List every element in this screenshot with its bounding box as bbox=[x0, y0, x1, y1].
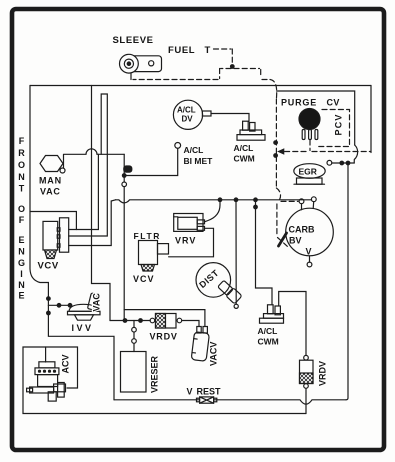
svg-text:BV: BV bbox=[289, 236, 302, 246]
valve VCV left bbox=[43, 218, 69, 259]
svg-text:CWM: CWM bbox=[258, 337, 279, 347]
svg-text:PCV: PCV bbox=[334, 113, 344, 135]
svg-text:VAC: VAC bbox=[92, 293, 102, 312]
svg-text:VRDV: VRDV bbox=[150, 332, 178, 342]
reservoir VRESER bbox=[121, 352, 147, 393]
svg-text:N: N bbox=[18, 280, 25, 290]
wire Va vertical bbox=[92, 86, 111, 321]
wire Vb to VCV port1 bbox=[69, 154, 99, 229]
purge valve PURGE CV bbox=[299, 109, 320, 140]
wire drop continues bbox=[123, 187, 125, 321]
junction dots on y200 bbox=[218, 198, 222, 202]
wire EGR right bbox=[332, 162, 354, 164]
wire riser to DIST bbox=[235, 200, 237, 304]
motor A/CL CWM 2 bbox=[260, 305, 284, 323]
svg-text:VACV: VACV bbox=[209, 342, 219, 366]
dashed hose fuel tank net bbox=[133, 49, 298, 247]
wire riser bridge to VCV port2 bbox=[69, 94, 108, 236]
big box left edge with elbow bbox=[30, 86, 48, 283]
label FRONT OF ENGINE bbox=[18, 136, 25, 301]
wire purge box S-bend to EGR wire bbox=[354, 145, 357, 163]
wire VRDV3 bottom bbox=[305, 388, 307, 413]
inner line y200 with dip hop bbox=[116, 200, 312, 203]
wire to IVV bbox=[48, 304, 69, 306]
svg-text:I: I bbox=[20, 269, 23, 279]
wire VCV port3 to top line bbox=[69, 200, 116, 246]
sleeve SLEEVE bbox=[119, 54, 161, 79]
wire BIMET down-left bbox=[124, 148, 178, 175]
wire sub line y309 to VACV bbox=[124, 310, 205, 327]
wire MAN VAC with hop bbox=[64, 149, 125, 168]
svg-text:T: T bbox=[19, 184, 25, 194]
big box top edge bbox=[30, 85, 371, 87]
svg-text:BI MET: BI MET bbox=[184, 156, 214, 166]
svg-text:A/CL: A/CL bbox=[177, 106, 196, 115]
motor A/CL CWM 1 bbox=[237, 121, 265, 140]
restrictor V REST bbox=[197, 397, 217, 403]
wire VRESER branch bbox=[133, 321, 135, 352]
wire VRV port2 to FLTR pipe bbox=[169, 228, 214, 256]
svg-text:VRESER: VRESER bbox=[150, 355, 160, 393]
dashed box PCV bbox=[283, 110, 371, 152]
filter VCV center bbox=[139, 241, 169, 272]
carb valve CARB BV bbox=[286, 197, 334, 267]
junction dashed fuel T bbox=[231, 65, 235, 69]
svg-text:VCV: VCV bbox=[38, 261, 59, 272]
svg-text:N: N bbox=[18, 247, 25, 257]
svg-text:N: N bbox=[18, 172, 25, 182]
svg-text:EGR: EGR bbox=[299, 167, 317, 177]
svg-text:E: E bbox=[18, 235, 24, 245]
svg-text:T: T bbox=[205, 45, 211, 56]
svg-text:VAC: VAC bbox=[40, 187, 61, 197]
pointer slash carb bbox=[279, 233, 287, 246]
box PURGE CV bbox=[277, 91, 355, 145]
svg-text:CV: CV bbox=[327, 98, 340, 108]
svg-text:MAN: MAN bbox=[39, 176, 62, 186]
valve VACV bbox=[191, 327, 209, 362]
svg-text:VRV: VRV bbox=[175, 236, 196, 246]
wire ACV loop bbox=[23, 347, 306, 414]
port A/CL BIMET bbox=[175, 143, 181, 149]
port circle bbox=[122, 182, 127, 187]
wire right vertical bbox=[346, 163, 348, 400]
svg-text:VRDV: VRDV bbox=[318, 361, 328, 386]
svg-text:PURGE: PURGE bbox=[281, 98, 317, 108]
valve EGR bbox=[294, 160, 332, 184]
svg-text:CWM: CWM bbox=[234, 154, 255, 164]
svg-text:FLTR: FLTR bbox=[134, 231, 161, 241]
svg-text:A/CL: A/CL bbox=[184, 145, 204, 155]
wire drop x124 blob junction bbox=[123, 154, 125, 182]
wire arc to VRV top port bbox=[205, 200, 221, 222]
valve ACV bbox=[27, 347, 66, 401]
svg-text:IVV: IVV bbox=[72, 323, 94, 333]
valve VRV bbox=[174, 214, 205, 232]
wire DV to CWM1 bbox=[211, 114, 249, 122]
svg-text:V: V bbox=[187, 387, 193, 397]
svg-text:F: F bbox=[19, 215, 25, 225]
svg-text:F: F bbox=[19, 136, 25, 146]
tube near VAC bbox=[87, 293, 97, 310]
svg-text:DV: DV bbox=[182, 115, 194, 124]
svg-text:O: O bbox=[18, 160, 25, 170]
valve A/CL DV bbox=[173, 100, 211, 129]
wire VRDV3 top bbox=[279, 292, 306, 356]
svg-text:A/CL: A/CL bbox=[258, 326, 278, 336]
wire riser to CWM2 bbox=[256, 200, 273, 305]
svg-text:V: V bbox=[306, 247, 312, 257]
distributor DIST bbox=[196, 263, 242, 309]
wire left column bbox=[48, 283, 114, 400]
svg-text:REST: REST bbox=[197, 387, 222, 397]
svg-text:VCV: VCV bbox=[133, 274, 155, 284]
hexagon MAN VAC bbox=[40, 156, 63, 172]
valve VRDV 2 bbox=[150, 314, 182, 329]
big box right edge bbox=[370, 86, 372, 153]
wire W1 bbox=[110, 321, 199, 327]
svg-text:O: O bbox=[18, 204, 25, 214]
valve IVV bbox=[68, 304, 101, 320]
svg-text:ACV: ACV bbox=[61, 354, 71, 373]
svg-text:G: G bbox=[18, 258, 25, 268]
svg-text:FUEL: FUEL bbox=[168, 45, 195, 56]
wire left edge to VCV top bbox=[30, 212, 76, 230]
svg-text:A/CL: A/CL bbox=[234, 143, 254, 153]
arrow purge return bbox=[278, 149, 284, 155]
wire V REST line bbox=[114, 400, 346, 404]
svg-text:SLEEVE: SLEEVE bbox=[113, 35, 154, 46]
svg-text:R: R bbox=[18, 148, 25, 158]
valve VRDV 3 bbox=[300, 355, 314, 388]
check valve blob bbox=[124, 166, 132, 172]
svg-text:CARB: CARB bbox=[289, 225, 315, 235]
svg-text:E: E bbox=[18, 291, 24, 301]
